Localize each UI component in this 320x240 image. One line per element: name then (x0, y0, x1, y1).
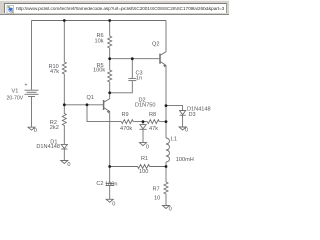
wire R1 row (110, 166, 138, 168)
wire R6-R5 junction (109, 48, 111, 70)
svg-text:0: 0 (185, 127, 188, 133)
wire R1 to emitter line (150, 166, 166, 168)
svg-text:R8: R8 (149, 112, 156, 118)
inductor L1 (166, 138, 169, 162)
wire Q1 base (64, 104, 103, 106)
resistor R10 (62, 62, 66, 74)
ground R7 (163, 206, 170, 209)
node R8-emitter (165, 120, 168, 123)
svg-text:0: 0 (34, 128, 37, 134)
wire R5 bottom (109, 82, 111, 93)
node R6-R5 base (108, 57, 111, 60)
svg-text:100k: 100k (93, 67, 105, 73)
svg-text:47k: 47k (149, 126, 158, 132)
svg-text:1n: 1n (136, 76, 142, 82)
svg-text:0: 0 (146, 145, 149, 151)
resistor R8 (147, 120, 159, 124)
zener diode D2 (139, 122, 146, 143)
transistor Q1 (104, 93, 110, 167)
svg-text:0: 0 (169, 207, 172, 213)
wire Q1 base branch down to R9 (87, 105, 121, 122)
svg-text:Q1: Q1 (87, 95, 94, 101)
wire R10 top (63, 21, 65, 63)
junction dots (63, 19, 168, 168)
svg-text:+: + (25, 83, 28, 89)
svg-text:10: 10 (154, 196, 160, 202)
node R10-R2-base (63, 103, 66, 106)
node D3 branch (165, 104, 168, 107)
svg-text:L1: L1 (171, 137, 177, 143)
wire battery to ground (31, 97, 33, 127)
svg-text:47k: 47k (50, 69, 59, 75)
ground C2 (106, 199, 113, 202)
node rail-R10 (63, 19, 66, 22)
svg-text:R9: R9 (122, 112, 129, 118)
node R1-L1-R7 (165, 165, 168, 168)
transistor Q2 (160, 21, 166, 139)
resistor R6 (108, 36, 112, 48)
node R5-C3-collector (108, 91, 111, 94)
svg-text:D1N750: D1N750 (135, 103, 156, 109)
wire R9 to D2 node (133, 121, 147, 123)
resistor R2 (62, 105, 66, 144)
node base-R9 branch (86, 103, 89, 106)
svg-text:V1: V1 (12, 89, 19, 95)
svg-text:100: 100 (139, 169, 148, 175)
svg-text:0: 0 (112, 202, 115, 208)
wire R6 top (109, 21, 111, 37)
wire Q2 base (110, 58, 160, 60)
wire top rail (32, 20, 167, 22)
favicon icon (6, 5, 16, 15)
svg-text:D1N4148: D1N4148 (36, 144, 60, 150)
wire R8 to emitter line (159, 121, 166, 123)
svg-text:470k: 470k (120, 126, 132, 132)
browser address bar (0, 0, 229, 15)
node C3 tap (131, 57, 134, 60)
wire left vertical to battery (31, 21, 33, 90)
svg-text:Q2: Q2 (152, 41, 159, 47)
svg-text:C2: C2 (96, 181, 103, 187)
wire L1 to R7 (165, 162, 167, 182)
svg-text:D3: D3 (189, 112, 196, 118)
svg-text:10k: 10k (95, 38, 104, 44)
svg-text:100mH: 100mH (176, 157, 194, 163)
svg-text:R1: R1 (141, 156, 148, 162)
node emitter-C2-R1 (108, 165, 111, 168)
wire R10 bottom (63, 74, 65, 105)
svg-text:2k2: 2k2 (50, 125, 59, 131)
capacitor C2 (106, 167, 114, 200)
url text (16, 7, 229, 16)
capacitor C3 (110, 59, 137, 93)
ground battery (28, 127, 35, 130)
diode D3 (180, 111, 186, 127)
svg-text:20-70V: 20-70V (7, 95, 24, 101)
ground D3 (179, 127, 186, 130)
svg-text:R7: R7 (153, 186, 160, 192)
node R9-R8-D2 (142, 120, 145, 123)
wire to D3 (166, 106, 183, 111)
ground D2 (140, 143, 147, 146)
ground D1 (61, 161, 68, 164)
svg-text:100n: 100n (105, 181, 117, 187)
wire R7 to ground (165, 194, 167, 205)
resistor R7 (164, 182, 168, 194)
svg-text:0: 0 (67, 162, 70, 168)
resistor R5 (108, 70, 112, 82)
node rail-R6 (108, 19, 111, 22)
resistor R9 (121, 120, 133, 124)
diode D1 (61, 144, 67, 160)
resistor R1 (138, 165, 150, 169)
battery V1 (25, 90, 39, 96)
